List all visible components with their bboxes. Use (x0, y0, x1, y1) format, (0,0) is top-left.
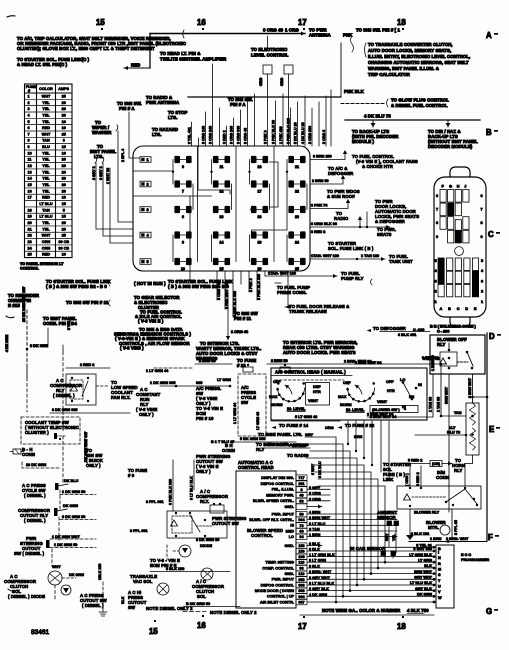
svg-text:10: 10 (181, 267, 185, 271)
pin 113 (296, 571, 307, 576)
wire feed x205.5 (205, 112, 207, 146)
svg-text:17: 17 (298, 18, 307, 27)
svg-text:PNK BLK: PNK BLK (344, 89, 365, 94)
svg-text:RED: RED (131, 63, 140, 68)
svg-text:H: H (457, 185, 460, 189)
svg-text:8 LT BLU BLK: 8 LT BLU BLK (190, 476, 194, 500)
svg-text:1 LT GRN 44: 1 LT GRN 44 (146, 369, 169, 373)
svg-text:23 DK GRN: 23 DK GRN (26, 463, 47, 467)
svg-text:TO FUSE # 22: TO FUSE # 22 (345, 423, 375, 428)
svg-text:3: 3 (481, 279, 483, 283)
to defogger arrow (367, 326, 431, 337)
fuse 2 (140, 181, 151, 187)
svg-text:( DIESEL ): ( DIESEL ) (24, 493, 46, 498)
svg-text:LT GRN BLK: LT GRN BLK (409, 553, 432, 557)
fuse 19 (252, 234, 268, 236)
svg-text:17: 17 (298, 622, 307, 631)
svg-text:3: 3 (28, 107, 30, 111)
automatic a/c control head (236, 460, 296, 608)
pin 717 (296, 475, 307, 480)
svg-text:& DESIEL FUEL CONTROL: & DESIEL FUEL CONTROL (391, 103, 448, 108)
wire inst panel lts (95, 157, 97, 163)
svg-text:ORG: ORG (280, 78, 284, 86)
svg-text:5: 5 (28, 120, 30, 124)
svg-text:YEL: YEL (392, 533, 396, 541)
svg-text:8 DK GRN 59: 8 DK GRN 59 (196, 538, 219, 542)
svg-text:TO DEFOGGER: TO DEFOGGER (373, 326, 407, 331)
svg-text:PIN # A: PIN # A (230, 102, 246, 107)
svg-text:(BLOWER SW ): (BLOWER SW ) (372, 408, 400, 412)
svg-text:DECODER MODULE): DECODER MODULE) (428, 144, 473, 149)
fuse 7 (175, 183, 191, 185)
wire feed x290.5 (290, 108, 292, 146)
svg-text:AUTO DOOR LOCKS. PWR SEATS: AUTO DOOR LOCKS. PWR SEATS (283, 350, 356, 355)
svg-text:20: 20 (62, 170, 66, 174)
svg-text:TAN: TAN (454, 411, 462, 415)
svg-text:8 ORG 140: 8 ORG 140 (201, 126, 205, 144)
svg-text:23: 23 (295, 215, 299, 219)
svg-text:20: 20 (62, 164, 66, 168)
svg-text:3 GRY 8: 3 GRY 8 (92, 166, 96, 180)
svg-text:23: 23 (28, 240, 32, 244)
fan of feed wires into fuse block top (187, 36, 331, 146)
fuse 13 (214, 209, 230, 211)
svg-text:& DEFOGGER: & DEFOGGER (375, 219, 406, 224)
svg-text:PNK: PNK (343, 33, 353, 38)
svg-text:8 ORG 40: 8 ORG 40 (263, 28, 284, 33)
svg-text:8 ORG 640: 8 ORG 640 (217, 282, 221, 300)
svg-text:964: 964 (298, 518, 305, 522)
svg-text:CONN: CONN (436, 475, 449, 480)
svg-text:110: 110 (298, 561, 304, 565)
svg-text:1 BRN: 1 BRN (430, 537, 442, 541)
svg-text:3 PPL 65: 3 PPL 65 (454, 520, 458, 535)
svg-text:RLY: RLY (437, 342, 446, 347)
svg-text:LTS.: LTS. (152, 132, 161, 137)
svg-text:C: C (457, 307, 460, 311)
svg-text:AMPS: AMPS (58, 87, 69, 91)
svg-text:WHT: WHT (42, 132, 51, 136)
svg-text:3 BRN 30: 3 BRN 30 (423, 357, 440, 361)
svg-text:TO ELECTRONIC: TO ELECTRONIC (251, 47, 287, 52)
svg-text:( ORG ): ( ORG ) (405, 473, 409, 486)
svg-text:GND.: GND. (285, 544, 295, 548)
connector pins top (243, 367, 253, 372)
svg-text:20: 20 (62, 107, 66, 111)
svg-text:8 PNK BLK 639: 8 PNK BLK 639 (233, 291, 237, 317)
svg-text:BRN WHT: BRN WHT (414, 570, 433, 574)
svg-text:D: D (489, 332, 495, 341)
ECC programmer connector (307, 544, 490, 609)
svg-text:25: 25 (62, 234, 66, 238)
svg-text:COLOR: COLOR (39, 87, 53, 91)
dial 2 (338, 380, 395, 412)
svg-text:2 BRN- WHT: 2 BRN- WHT (446, 537, 469, 541)
wire right bus D to F (486, 333, 488, 541)
svg-text:1 PNK 439: 1 PNK 439 (279, 126, 283, 144)
brace (351, 36, 354, 52)
fuse 3 (140, 207, 151, 213)
wire feed x247.5 (247, 101, 249, 146)
svg-text:1: 1 (147, 158, 149, 162)
svg-text:3 PNK 76: 3 PNK 76 (311, 204, 327, 208)
wire feed x268.5 (288, 74, 290, 146)
dashed main vertical (62, 345, 64, 352)
svg-text:ONLY ): ONLY ) (139, 412, 154, 417)
svg-text:YEL: YEL (42, 164, 50, 168)
svg-text:PRIME CONN.: PRIME CONN. (277, 290, 307, 295)
pin 53 (296, 498, 307, 503)
svg-text:1 LT GRN BLK: 1 LT GRN BLK (309, 553, 335, 557)
svg-text:18: 18 (397, 622, 406, 631)
svg-text:PUMP RLY: PUMP RLY (341, 276, 364, 281)
svg-text:5: 5 (147, 260, 149, 264)
row label E (489, 425, 500, 434)
svg-text:7: 7 (28, 132, 30, 136)
svg-text:1 TAN 63: 1 TAN 63 (437, 397, 441, 412)
svg-text:8: 8 (436, 221, 438, 225)
svg-text:13: 13 (220, 215, 224, 219)
pin 993 (296, 588, 307, 593)
in car sensor (350, 546, 396, 558)
svg-text:E: E (489, 425, 494, 434)
8 pnk blk 639 drop (172, 460, 174, 511)
svg-text:8: 8 (182, 215, 184, 219)
automatic head pin column (247, 475, 397, 605)
svg-text:NOTE WIRE GA.. COLOR & NUMBE: NOTE WIRE GA.. COLOR & NUMBER (322, 608, 401, 613)
svg-text:TO TRANSAXLE CONVERTER CLUTCH,: TO TRANSAXLE CONVERTER CLUTCH, (368, 42, 453, 47)
svg-text:A: A (486, 31, 492, 40)
svg-text:3 BLK 151: 3 BLK 151 (411, 532, 429, 536)
staircase wires to lower area (300, 437, 386, 603)
5 red 2 to horn rly (383, 455, 473, 486)
svg-text:YEL: YEL (42, 177, 50, 181)
svg-text:3 BLK 451: 3 BLK 451 (398, 333, 416, 337)
svg-text:G: G (486, 607, 492, 616)
svg-text:50: 50 (299, 513, 303, 517)
wire tan wht 120 lower (265, 275, 337, 277)
svg-text:TO HEAD LT. PIN &: TO HEAD LT. PIN & (160, 51, 200, 56)
svg-text:( DIESEL ): ( DIESEL ) (24, 518, 46, 523)
svg-text:MODE DOOR ( DOWN: MODE DOOR ( DOWN (255, 589, 294, 593)
wire wht 93 (110, 168, 133, 243)
svg-text:N: N (438, 556, 441, 560)
svg-text:YEL: YEL (42, 113, 50, 117)
svg-text:9: 9 (436, 235, 438, 239)
svg-text:LTS.: LTS. (94, 154, 103, 159)
wire ecc row R (307, 561, 434, 563)
svg-text:RED: RED (42, 126, 50, 130)
svg-text:DK GRN: DK GRN (417, 593, 432, 597)
svg-text:TO PANEL INTERIOR LT: TO PANEL INTERIOR LT (20, 262, 64, 266)
svg-text:NORM: NORM (340, 403, 352, 407)
stub brn 250 (310, 153, 345, 160)
svg-text:5 LT GRN 46: 5 LT GRN 46 (295, 415, 317, 419)
svg-text:8 PNK BLK 39: 8 PNK BLK 39 (271, 120, 275, 144)
pin 997 (296, 599, 307, 604)
section label 17 bottom (298, 616, 307, 631)
svg-text:25: 25 (62, 132, 66, 136)
svg-text:935: 935 (196, 381, 202, 385)
svg-text:YEL: YEL (42, 151, 50, 155)
pin 198 (296, 554, 307, 559)
svg-text:( DIESEL ): ( DIESEL ) (82, 603, 104, 608)
svg-text:30 CB: 30 CB (58, 240, 69, 244)
svg-text:11: 11 (220, 165, 224, 169)
svg-text:GRY WHT: GRY WHT (414, 576, 432, 580)
scan mark left (6, 316, 14, 318)
svg-text:8 GRY 996: 8 GRY 996 (413, 547, 432, 551)
wires below control head (256, 415, 375, 478)
svg-text:20: 20 (28, 221, 32, 225)
svg-text:8 DK BLU: 8 DK BLU (318, 461, 322, 478)
left diesel chain (4, 345, 206, 616)
svg-text:CONTROL | UP: CONTROL | UP (267, 595, 295, 599)
svg-text:CONN: CONN (22, 452, 35, 457)
svg-text:904: 904 (298, 595, 305, 599)
pin 73 (296, 523, 307, 528)
svg-text:ONLY ): ONLY ) (86, 463, 101, 468)
a/c press cycle sw dashed box (238, 374, 266, 436)
svg-text:24: 24 (295, 240, 299, 244)
svg-text:GRY: GRY (385, 533, 389, 541)
svg-text:11: 11 (28, 158, 32, 162)
svg-text:ANTENNA: ANTENNA (309, 33, 331, 38)
svg-text:1 TAN 63: 1 TAN 63 (429, 397, 433, 412)
svg-text:B: B (448, 307, 451, 311)
svg-text:5: 5 (435, 259, 437, 263)
bulkhead connector C-100 (434, 167, 486, 327)
svg-text:2 BRN- WHT 64: 2 BRN- WHT 64 (344, 360, 373, 364)
svg-text:D: D (465, 307, 468, 311)
svg-text:19: 19 (28, 215, 32, 219)
wire feed x297.5 (297, 102, 299, 146)
svg-text:4 DK BLU 29: 4 DK BLU 29 (301, 122, 305, 144)
svg-text:3 ORG 300: 3 ORG 300 (308, 126, 312, 144)
svg-text:1TAN- WHT 120: 1TAN- WHT 120 (268, 272, 296, 276)
svg-text:GND.: GND. (285, 505, 295, 509)
svg-text:3 PNK 3: 3 PNK 3 (263, 130, 267, 144)
svg-text:DIODE: DIODE (200, 544, 212, 548)
coolant temp sw symbol (56, 435, 66, 437)
svg-text:9: 9 (481, 235, 483, 239)
svg-text:8 FPL 901: 8 FPL 901 (146, 500, 164, 504)
dashed drop left (26, 310, 28, 368)
svg-text:2: 2 (28, 101, 30, 105)
svg-text:AIR INLET CONTR.: AIR INLET CONTR. (260, 600, 294, 604)
svg-text:1 DK GRN 935: 1 DK GRN 935 (150, 381, 176, 385)
svg-text:PWR. INPUT: PWR. INPUT (272, 578, 295, 582)
svg-text:25: 25 (28, 253, 32, 257)
svg-text:SW: SW (241, 400, 249, 405)
coolant temp sw box (21, 417, 80, 444)
svg-text:( DIESEL ) DIODE: ( DIESEL ) DIODE (8, 594, 45, 599)
svg-text:8: 8 (28, 139, 30, 143)
svg-text:DK GRN: DK GRN (69, 573, 84, 577)
svg-text:20: 20 (62, 189, 66, 193)
svg-text:5: 5 (63, 208, 65, 212)
pin 904 (296, 594, 307, 599)
svg-text:20: 20 (62, 101, 66, 105)
svg-text:16: 16 (258, 165, 262, 169)
row label C (488, 230, 500, 239)
svg-text:CONN. PIN # B4: CONN. PIN # B4 (43, 321, 77, 326)
svg-text:3 YEL 431: 3 YEL 431 (187, 127, 191, 144)
pin 996 (296, 582, 307, 587)
wire fuel door release (285, 281, 288, 307)
svg-text:53: 53 (299, 499, 303, 503)
svg-text:PROGRAMMER: PROGRAMMER (461, 558, 490, 562)
pin 950 (296, 577, 307, 582)
svg-text:PNL, ILLUM.: PNL, ILLUM. (272, 488, 294, 492)
svg-text:1TAN- WHT 120: 1TAN- WHT 120 (311, 254, 339, 258)
svg-text:8 ORG 40: 8 ORG 40 (243, 128, 247, 144)
svg-text:I: I (438, 551, 439, 555)
svg-text:(CB): (CB) (432, 462, 441, 466)
svg-text:18: 18 (258, 215, 262, 219)
left fan labels (90, 95, 253, 159)
svg-text:YEL: YEL (42, 189, 50, 193)
svg-text:20: 20 (62, 227, 66, 231)
svg-text:15: 15 (62, 215, 66, 219)
svg-text:B H ( BULKHEAD CONN ): B H ( BULKHEAD CONN ) (430, 325, 477, 329)
wire feed x191.5 (191, 122, 193, 146)
fuse 12 (214, 183, 230, 185)
svg-text:1LT: 1LT (449, 426, 456, 430)
wire feed x226.5 (226, 126, 228, 146)
svg-text:18: 18 (397, 18, 406, 27)
svg-text:8 BLK: 8 BLK (309, 565, 320, 569)
svg-text:83461: 83461 (31, 629, 49, 636)
svg-text:GRY BLK: GRY BLK (415, 587, 432, 591)
svg-text:TO GLOW PLUG CONTROL: TO GLOW PLUG CONTROL (391, 98, 449, 103)
wire ecc row B (383, 546, 434, 548)
fuse 15 (214, 261, 230, 263)
stub pnk 76 (310, 202, 348, 209)
svg-text:OFF: OFF (386, 380, 394, 384)
pin 150 (296, 543, 307, 548)
svg-text:N #15: N #15 (8, 303, 20, 308)
svg-text:PIN # 19: PIN # 19 (196, 416, 214, 421)
svg-text:SW ( DIESEL ): SW ( DIESEL ) (14, 551, 45, 556)
svg-text:996: 996 (298, 584, 304, 588)
pin 150 (296, 548, 307, 553)
svg-text:TANK UNIT: TANK UNIT (389, 259, 413, 264)
svg-text:YEL: YEL (42, 158, 50, 162)
svg-text:WASHER: WASHER (92, 130, 112, 135)
svg-text:VAC SOL: VAC SOL (133, 579, 153, 584)
svg-text:HI: HI (290, 524, 294, 528)
svg-text:G: G (449, 185, 452, 189)
svg-text:COMPRESSOR: COMPRESSOR (50, 383, 83, 388)
svg-text:WHT: WHT (42, 94, 51, 98)
wire ecc row N (307, 556, 434, 558)
svg-text:J: J (464, 185, 466, 189)
svg-text:63: 63 (299, 530, 303, 534)
svg-text:1: 1 (435, 300, 437, 304)
svg-text:IN CAR SENSOR: IN CAR SENSOR (350, 546, 386, 551)
svg-text:DEF: DEF (313, 385, 321, 389)
fuse 21 (289, 159, 305, 161)
svg-text:PWR ANTENNA: PWR ANTENNA (146, 100, 179, 105)
svg-text:A: A (440, 307, 443, 311)
svg-text:9: 9 (28, 145, 30, 149)
svg-text:DEFOG CONTROL: DEFOG CONTROL (261, 482, 295, 486)
svg-text:2 PNK 3: 2 PNK 3 (249, 278, 253, 292)
wire below block x288 (287, 271, 289, 281)
pin 64 (296, 534, 307, 539)
blower switch (370, 378, 422, 419)
svg-text:BLOWER RLY: BLOWER RLY (414, 511, 440, 515)
svg-text:997: 997 (298, 601, 304, 605)
svg-text:3: 3 (147, 208, 149, 212)
svg-text:25 DK GRN WHT 867: 25 DK GRN WHT 867 (22, 287, 26, 322)
stub org blk 60 (310, 226, 390, 228)
svg-text:COMP. CONTROL: COMP. CONTROL (262, 566, 294, 570)
pin 110 (296, 560, 307, 565)
svg-text:10: 10 (62, 253, 66, 257)
svg-text:7: 7 (481, 208, 483, 212)
wire ecc row M (307, 567, 434, 569)
svg-text:WHT: WHT (52, 565, 61, 569)
svg-text:NORM: NORM (271, 403, 283, 407)
wire feed x219.5 (219, 108, 221, 146)
svg-text:VENT: VENT (308, 399, 319, 403)
wire brn wht vertical (448, 374, 450, 512)
wire ecc row U (307, 584, 434, 586)
svg-text:8 DK GRN 935: 8 DK GRN 935 (52, 408, 78, 412)
section label 17 top (298, 18, 307, 30)
svg-text:8 DK GRN 59: 8 DK GRN 59 (62, 515, 85, 519)
svg-text:NOTE DIESEL ONLY 2: NOTE DIESEL ONLY 2 (210, 610, 257, 615)
svg-text:3 ORG BLK 60: 3 ORG BLK 60 (311, 222, 337, 226)
svg-text:PIN # A: PIN # A (119, 106, 135, 111)
fuse 11 (214, 159, 230, 161)
pin 40 (296, 492, 307, 497)
svg-text:21: 21 (295, 165, 299, 169)
svg-text:2: 2 (481, 290, 483, 294)
svg-text:C: C (488, 230, 494, 239)
middle text labels (5, 279, 439, 462)
svg-text:ORN: ORN (42, 240, 51, 244)
fuse 23 (289, 209, 305, 211)
wire feed x275.5 (275, 101, 277, 146)
svg-text:YEL: YEL (42, 120, 50, 124)
svg-text:WHT: WHT (42, 234, 51, 238)
scan mark top-left (7, 16, 15, 17)
row label A (486, 31, 498, 40)
svg-text:ORG: ORG (259, 78, 263, 86)
fuse 17 (252, 183, 268, 185)
wire feed x198.5 (198, 138, 200, 146)
svg-text:10: 10 (62, 196, 66, 200)
svg-text:3 RED 2: 3 RED 2 (222, 130, 226, 144)
svg-text:& SUN ROOF: & SUN ROOF (327, 194, 355, 199)
svg-text:ORG: ORG (325, 426, 334, 430)
svg-text:MODULE ): MODULE ) (352, 139, 375, 144)
svg-text:YEL: YEL (42, 221, 50, 225)
svg-text:15: 15 (220, 267, 224, 271)
svg-text:HTR: HTR (387, 389, 395, 393)
svg-text:LO: LO (289, 535, 294, 539)
svg-text:LT BLU: LT BLU (39, 215, 52, 219)
svg-text:8: 8 (481, 221, 483, 225)
svg-text:10: 10 (62, 126, 66, 130)
fuse 8 (175, 209, 191, 211)
wire below block x241 (240, 271, 242, 284)
svg-text:4 DK BLU 73: 4 DK BLU 73 (364, 114, 391, 119)
wire drops below control head (347, 421, 389, 479)
